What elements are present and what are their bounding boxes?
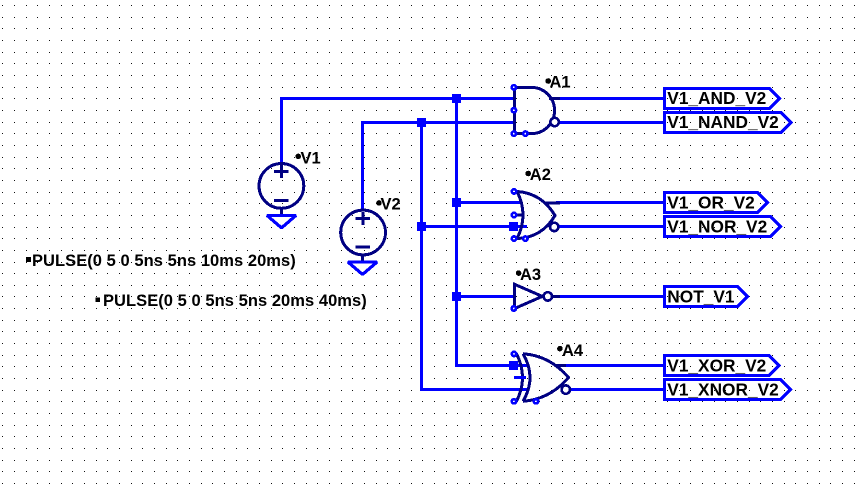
net flag V1_NAND_V2 xyxy=(665,112,792,133)
junction node A3 input xyxy=(452,292,461,301)
A1 unused pin middle xyxy=(512,108,516,112)
label A1 xyxy=(545,74,570,92)
junction node A2 input1 xyxy=(452,198,461,207)
wire A2 input2 xyxy=(417,225,527,228)
label V2 xyxy=(376,195,400,213)
svg-text:V2: V2 xyxy=(381,195,401,213)
label V1 xyxy=(295,149,320,167)
svg-text:V1_OR_V2: V1_OR_V2 xyxy=(667,193,754,213)
svg-text:PULSE(0 5 0 5ns 5ns 10ms 20ms): PULSE(0 5 0 5ns 5ns 10ms 20ms) xyxy=(32,252,296,270)
NOT gate A3 body xyxy=(515,284,560,308)
svg-text:A3: A3 xyxy=(520,266,541,284)
voltage source V1 xyxy=(259,164,304,209)
A3 unused pin bottom xyxy=(512,306,516,310)
A1 unused pin bottom-center xyxy=(523,131,527,135)
junction node V2/A1 xyxy=(417,118,426,127)
svg-text:V1_NOR_V2: V1_NOR_V2 xyxy=(667,217,767,237)
junction node A2 input2 xyxy=(417,222,426,231)
A1 unused pin bottom-left xyxy=(512,131,516,135)
label A3 xyxy=(516,266,541,284)
A4 unused pin bottom-center xyxy=(534,399,538,403)
wire V2 to A1 input2 xyxy=(363,123,515,211)
svg-text:V1_NAND_V2: V1_NAND_V2 xyxy=(667,112,778,132)
wire A2 output NOR xyxy=(559,225,665,228)
label A4 xyxy=(557,342,584,360)
svg-text:A4: A4 xyxy=(562,342,584,360)
A1 NAND bubble xyxy=(550,118,558,126)
wire A1 output NAND xyxy=(560,121,665,124)
A2 unused pin bottom-center xyxy=(523,236,527,240)
A2 unused pin bottom-left xyxy=(512,236,516,240)
svg-text:V1_AND_V2: V1_AND_V2 xyxy=(667,88,766,108)
svg-text:NOT_V1: NOT_V1 xyxy=(667,286,735,306)
A4 unused pin bottom-left xyxy=(512,399,516,403)
A2 unused pin top xyxy=(512,189,516,193)
A4 unused pin top xyxy=(512,352,516,356)
net flag V1_NOR_V2 xyxy=(665,217,781,237)
svg-text:A2: A2 xyxy=(530,166,551,184)
wire A2 output OR xyxy=(556,201,665,204)
spice directive PULSE V1 xyxy=(26,252,296,270)
wire A3 output NOT xyxy=(553,295,665,298)
svg-text:V1_XOR_V2: V1_XOR_V2 xyxy=(667,355,766,375)
junction node A2 pin2 xyxy=(509,222,518,231)
junction node A4 pin1 xyxy=(509,361,518,370)
A1 unused pin top xyxy=(512,85,516,89)
ground below V2 xyxy=(348,262,377,275)
junction node V1/A1 xyxy=(452,94,461,103)
wire A1 output AND xyxy=(556,97,665,100)
net flag V1_XOR_V2 xyxy=(665,355,780,375)
svg-text:A1: A1 xyxy=(550,74,571,92)
OR gate A2 body xyxy=(514,191,560,238)
svg-text:V1_XNOR_V2: V1_XNOR_V2 xyxy=(667,380,778,400)
wire V1 to A1 input1 xyxy=(282,99,515,164)
wire A3 input xyxy=(457,295,516,298)
XOR gate A4 body xyxy=(517,354,569,402)
wire V1 bus vertical + A4 input1 feed xyxy=(457,99,529,366)
net flag V1_XNOR_V2 xyxy=(665,380,791,400)
A2 unused pin middle xyxy=(512,213,516,217)
voltage source V2 xyxy=(341,210,386,255)
net flag V1_AND_V2 xyxy=(665,88,780,108)
AND gate A1 body xyxy=(514,87,560,133)
A3 bubble xyxy=(544,292,552,300)
wire V1 bottom stub xyxy=(280,208,283,215)
A4 XNOR bubble xyxy=(562,385,570,393)
ground below V1 xyxy=(267,215,296,228)
A4 mid pin stub xyxy=(514,376,526,379)
wire V2 bottom stub xyxy=(361,254,364,261)
wire A4 output XNOR xyxy=(570,388,664,391)
label A2 xyxy=(525,166,550,184)
net flag V1_OR_V2 xyxy=(665,193,768,213)
spice directive PULSE V2 xyxy=(96,292,367,310)
wire A4 output XOR xyxy=(562,364,665,367)
svg-text:V1: V1 xyxy=(301,149,321,167)
svg-text:PULSE(0 5 0 5ns 5ns 20ms 40ms): PULSE(0 5 0 5ns 5ns 20ms 40ms) xyxy=(103,292,367,310)
wire A2 input1 xyxy=(457,201,521,204)
A2 NOR bubble xyxy=(550,223,558,231)
wire V2 bus vertical + A4 input2 feed xyxy=(422,123,529,390)
net flag NOT_V1 xyxy=(665,286,748,306)
